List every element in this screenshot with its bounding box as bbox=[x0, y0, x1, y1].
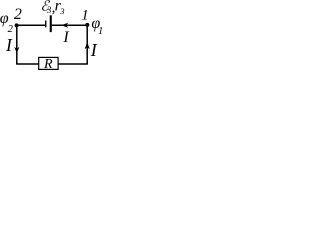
svg-text:I: I bbox=[90, 40, 98, 60]
svg-text:1: 1 bbox=[81, 7, 89, 23]
svg-text:1: 1 bbox=[98, 26, 103, 37]
svg-text:R: R bbox=[43, 57, 53, 72]
svg-text:2: 2 bbox=[8, 24, 14, 35]
svg-text:I: I bbox=[62, 29, 69, 46]
svg-text:2: 2 bbox=[14, 6, 22, 23]
svg-text:3: 3 bbox=[59, 6, 64, 16]
svg-text:I: I bbox=[5, 35, 13, 55]
